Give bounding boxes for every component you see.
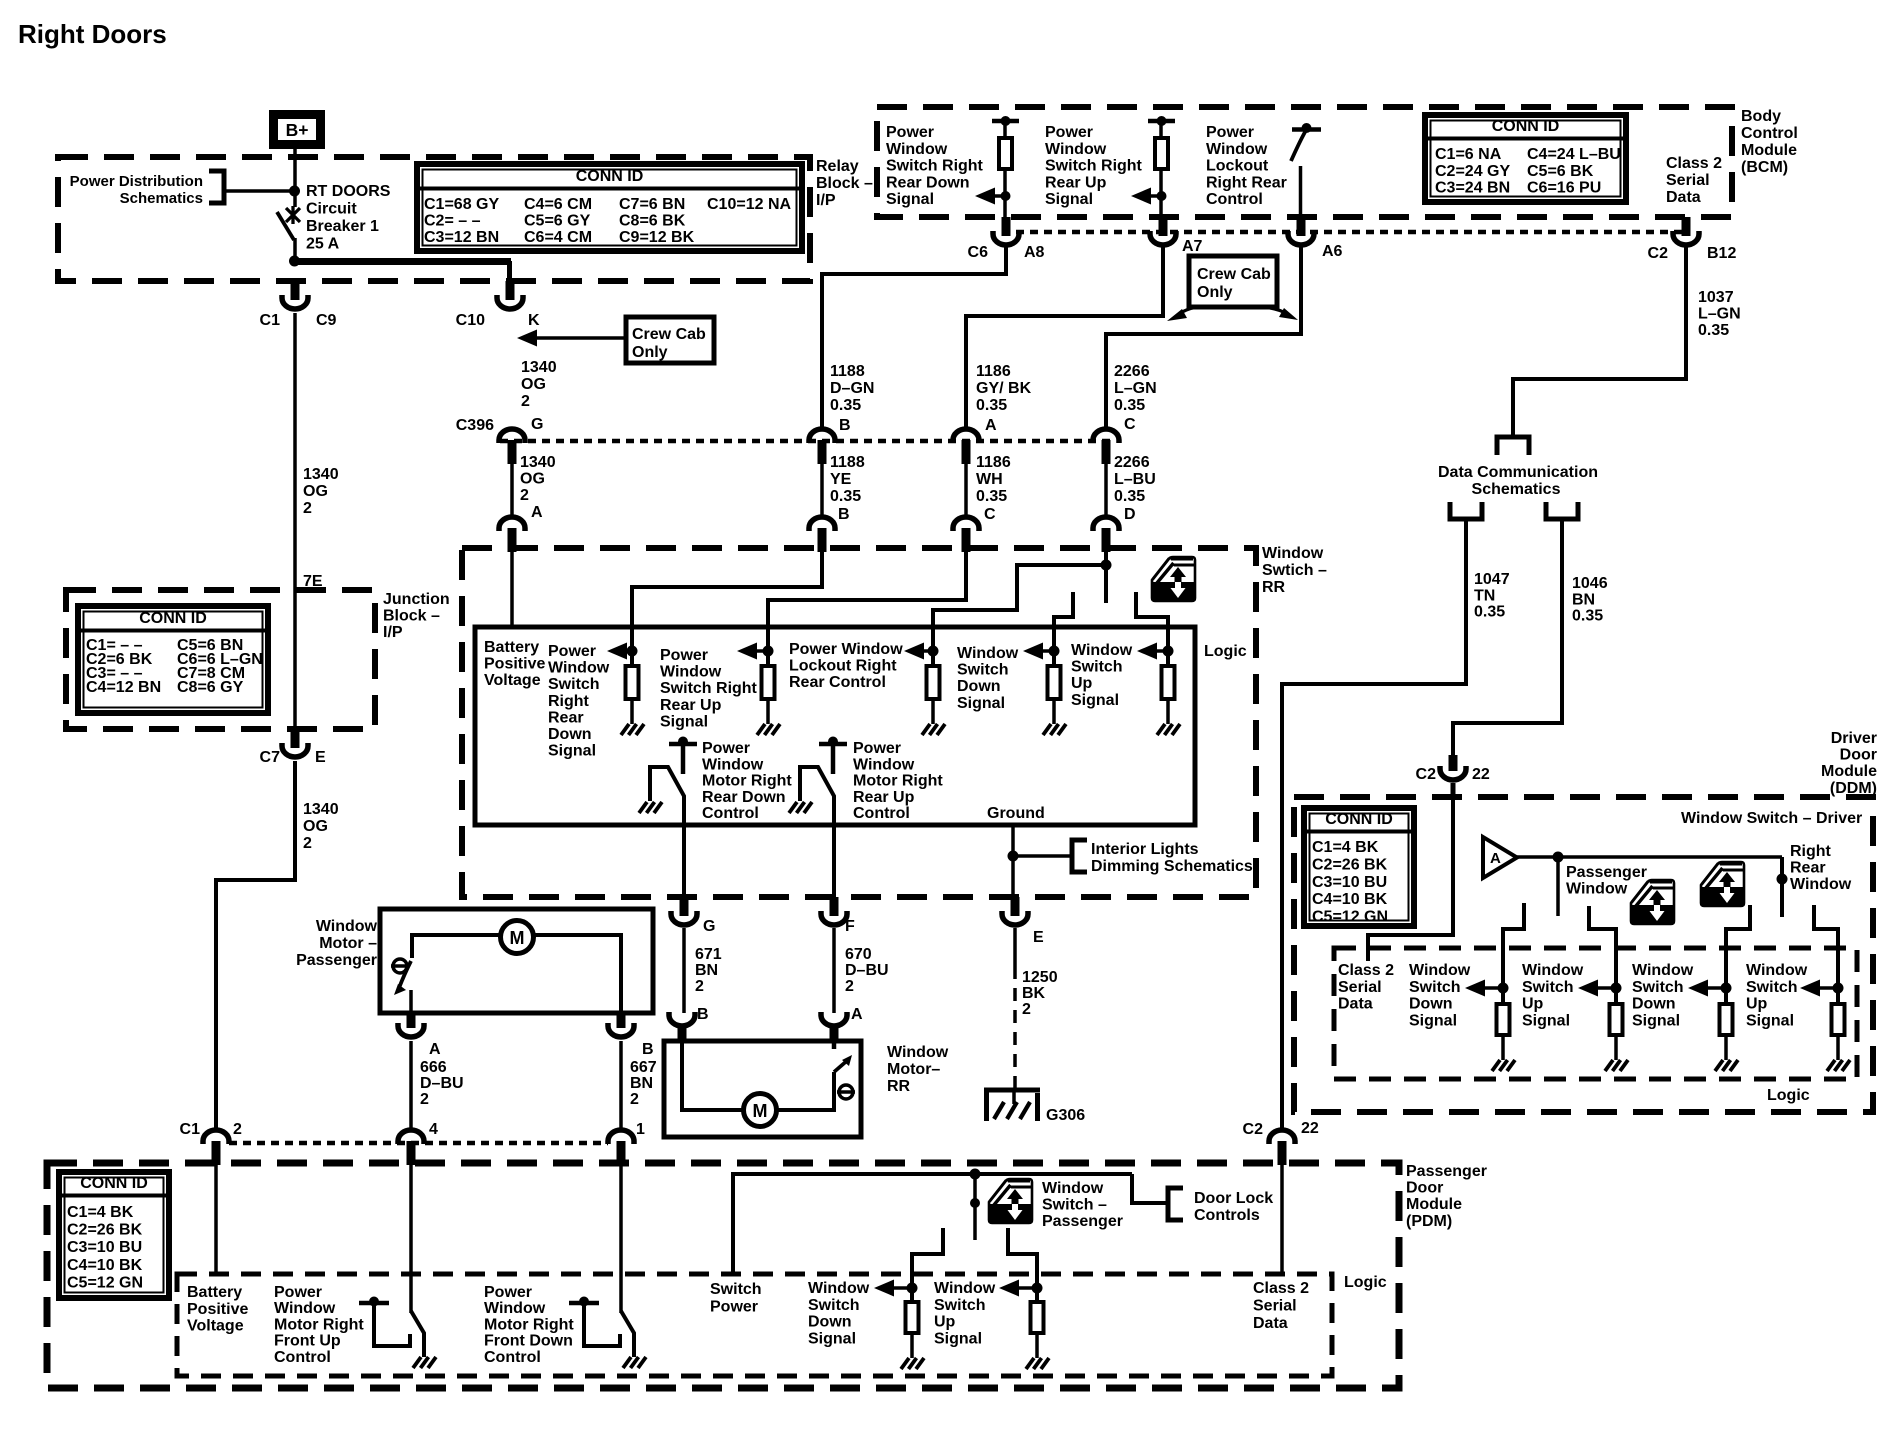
label power window switch right rear up signal (RR) (660, 647, 758, 730)
svg-text:Schematics: Schematics (120, 190, 203, 207)
connector A (motor passenger) (398, 1013, 424, 1037)
pin label B12 (1707, 245, 1736, 262)
svg-text:Signal: Signal (1071, 692, 1119, 709)
wire window switch up signal stub (1136, 592, 1168, 666)
pin label G (RR out) (703, 918, 715, 935)
svg-text:D–BU: D–BU (420, 1075, 464, 1092)
node right rear window tap (1777, 874, 1788, 885)
label window switch up signal (PDM) (934, 1280, 996, 1347)
svg-text:Switch Right: Switch Right (886, 158, 984, 175)
title Right Doors (18, 19, 167, 49)
label 1047 TN 0.35 (1474, 571, 1510, 621)
ground driver col2 (1605, 1060, 1628, 1071)
wire 1047 TN (1282, 519, 1466, 1131)
svg-text:Passenger: Passenger (1042, 1213, 1123, 1230)
node junction driver col3 (1721, 983, 1732, 994)
wire driver col4 contact (1814, 905, 1838, 1004)
pin label B (motor RR) (697, 1006, 709, 1023)
resistor col3 RR (927, 666, 940, 724)
svg-text:0.35: 0.35 (1698, 322, 1729, 339)
svg-text:Battery: Battery (484, 639, 539, 656)
svg-text:L–GN: L–GN (1698, 306, 1741, 323)
pin label 7E (303, 573, 323, 590)
node junction passenger up (1032, 1283, 1043, 1294)
resistor col2 RR (762, 666, 775, 724)
svg-text:Lockout: Lockout (1206, 158, 1269, 175)
svg-text:Module: Module (1821, 763, 1877, 780)
label Passenger Window (1566, 864, 1647, 898)
connector C2/22 (DDM) (1440, 755, 1466, 780)
resistor col1 RR (626, 666, 639, 724)
wire switch power (733, 1174, 1132, 1274)
label 1340 OG 2 below row (520, 454, 556, 504)
svg-text:RR: RR (887, 1078, 911, 1095)
pin label C1 (PDM) (180, 1121, 201, 1138)
svg-text:Window: Window (1522, 962, 1584, 979)
svg-text:Signal: Signal (957, 695, 1005, 712)
wire 1188 D-GN (A8 to B) (822, 246, 1006, 430)
label power window switch right rear up signal (1045, 124, 1143, 208)
svg-text:C1=68 GY: C1=68 GY (424, 196, 499, 213)
svg-text:1188: 1188 (830, 363, 865, 380)
svg-text:Data: Data (1338, 996, 1373, 1013)
svg-text:Window Switch – Driver: Window Switch – Driver (1681, 810, 1862, 827)
label Window Switch - Passenger (1042, 1180, 1123, 1230)
node junction col4 (1049, 646, 1060, 657)
svg-text:Up: Up (1746, 996, 1768, 1013)
callout Crew Cab Only (left) (517, 317, 714, 363)
connector F (821, 897, 847, 925)
svg-text:C8=6 GY: C8=6 GY (177, 679, 244, 696)
label power window switch right rear down signal (RR) (548, 643, 610, 760)
label Relay Block - I/P (816, 158, 873, 209)
svg-text:C10=12 NA: C10=12 NA (707, 196, 791, 213)
svg-text:Window: Window (808, 1280, 870, 1297)
svg-text:Passenger: Passenger (296, 952, 377, 969)
wire 1186 WH segment (964, 456, 968, 517)
svg-text:Positive: Positive (187, 1301, 248, 1318)
connector C2/22 (PDM) (1269, 1130, 1295, 1165)
wire 667 BN lower (619, 1041, 623, 1131)
svg-text:22: 22 (1301, 1120, 1319, 1137)
wire passenger window pole (1556, 857, 1560, 916)
svg-text:M: M (753, 1101, 768, 1121)
svg-text:Switch: Switch (1071, 659, 1123, 676)
label Window Motor - Passenger (296, 918, 377, 969)
ground G306 (984, 1090, 1040, 1121)
label power window motor right rear down control (702, 740, 792, 822)
svg-text:C3=10 BU: C3=10 BU (67, 1239, 142, 1256)
svg-text:2: 2 (695, 978, 704, 995)
component box Window Motor Passenger (380, 909, 653, 1013)
svg-text:L–BU: L–BU (1114, 471, 1156, 488)
ground col3 RR (922, 724, 945, 735)
pin label 22 (DDM) (1472, 766, 1490, 783)
wire motor right front down control (619, 1162, 623, 1313)
label window switch down signal (PDM) (808, 1280, 870, 1347)
svg-text:Rear Up: Rear Up (853, 789, 915, 806)
svg-text:671: 671 (695, 946, 722, 963)
svg-text:Serial: Serial (1338, 979, 1382, 996)
svg-text:OG: OG (303, 483, 328, 500)
node junction col3 (928, 646, 939, 657)
svg-text:GY/ BK: GY/ BK (976, 380, 1032, 397)
svg-text:A6: A6 (1322, 243, 1343, 260)
svg-text:Window: Window (548, 660, 610, 677)
svg-text:M: M (510, 928, 525, 948)
svg-text:Rear Control: Rear Control (789, 674, 886, 691)
ground driver col4 (1827, 1060, 1850, 1071)
label Body Control Module (BCM) (1741, 108, 1798, 176)
wire motor passenger loop (412, 935, 621, 1013)
label window switch up signal (D4) (1746, 962, 1808, 1029)
table CONN ID BCM (1425, 115, 1626, 202)
svg-text:Block –: Block – (383, 608, 440, 625)
svg-text:2: 2 (233, 1121, 242, 1138)
wire 1037 L-GN (B12 to data comm) (1513, 246, 1686, 437)
resistor col4 RR (1048, 666, 1061, 724)
svg-text:Module: Module (1741, 142, 1797, 159)
svg-text:B: B (697, 1006, 709, 1023)
node junction passenger down (907, 1283, 918, 1294)
connector B (motor RR) (669, 1012, 695, 1039)
resistor driver col3 (1720, 1004, 1733, 1060)
pin label C7 (260, 749, 281, 766)
svg-text:OG: OG (521, 376, 546, 393)
label Window Swtich - RR (1262, 545, 1327, 596)
svg-text:CONN ID: CONN ID (576, 168, 644, 185)
component box Window Motor RR (664, 1041, 861, 1137)
offpage connector (class 2 to data comm) (1497, 437, 1529, 455)
svg-text:A: A (429, 1041, 441, 1058)
signal arrow down signal (RR) (1023, 643, 1054, 660)
svg-text:Power: Power (484, 1284, 532, 1301)
connector RR pin B (809, 517, 835, 552)
svg-text:C2: C2 (1416, 766, 1437, 783)
svg-text:Data Communication: Data Communication (1438, 464, 1598, 481)
label window switch up signal (RR) (1071, 642, 1133, 709)
label Logic (PDM) (1344, 1274, 1387, 1291)
wire 1046 BN (1453, 519, 1562, 757)
svg-text:Logic: Logic (1204, 643, 1247, 660)
ground col5 RR (1157, 724, 1180, 735)
callout Crew Cab Only (right) (1167, 256, 1298, 321)
svg-text:Crew Cab: Crew Cab (632, 326, 706, 343)
wire feed bus (294, 261, 511, 283)
label Data Communication Schematics (1438, 464, 1598, 498)
svg-text:Down: Down (548, 726, 592, 743)
connector G (671, 897, 697, 925)
svg-text:BK: BK (1022, 985, 1046, 1002)
resistor driver col2 (1610, 1004, 1623, 1060)
node junction driver col2 (1611, 983, 1622, 994)
pin label A (985, 417, 997, 434)
wire 1186 GY/BK (A7 to A) (966, 246, 1163, 430)
svg-text:C5=6 GY: C5=6 GY (524, 213, 591, 230)
svg-text:Window: Window (1262, 545, 1324, 562)
label 2266 L-GN 0.35 (1114, 363, 1157, 414)
svg-text:Up: Up (1522, 996, 1544, 1013)
label Junction Block - I/P (383, 591, 450, 641)
svg-text:Circuit: Circuit (306, 201, 357, 218)
net dotted connector row PDM (229, 1141, 608, 1146)
connector A (motor RR) (821, 1012, 847, 1039)
pin label D (RR) (1124, 506, 1136, 523)
ground driver col3 (1715, 1060, 1738, 1071)
pin label B (RR) (838, 506, 850, 523)
label 1186 GY/BK 0.35 (976, 363, 1032, 414)
connector RR pin A (499, 517, 525, 552)
svg-text:C: C (984, 506, 996, 523)
svg-text:Rear: Rear (1790, 860, 1826, 877)
label Door Lock Controls (1194, 1190, 1273, 1224)
node junction col2 (763, 646, 774, 657)
svg-text:2: 2 (303, 835, 312, 852)
wire 1188 YE segment (820, 456, 824, 517)
svg-text:(BCM): (BCM) (1741, 159, 1788, 176)
wire 1340 OG segment (510, 456, 514, 517)
signal arrow rear up (1131, 188, 1167, 205)
svg-text:Power: Power (702, 740, 750, 757)
pin label C1 (260, 312, 281, 329)
wire B+ to breaker (293, 149, 297, 191)
svg-text:0.35: 0.35 (976, 397, 1007, 414)
pin label A8 (1024, 244, 1045, 261)
pin label 22 (PDM) (1301, 1120, 1319, 1137)
label 1340 OG 2 lower (303, 801, 339, 852)
svg-text:D–BU: D–BU (845, 962, 889, 979)
wire lockout control into logic (933, 548, 1112, 666)
svg-text:Window: Window (660, 664, 722, 681)
svg-text:2: 2 (420, 1091, 429, 1108)
svg-text:Right Rear: Right Rear (1206, 174, 1287, 191)
wire rear down signal into logic (632, 548, 822, 666)
svg-text:Body: Body (1741, 108, 1781, 125)
wire 1340 OG (C9 to junction block) (293, 313, 297, 590)
svg-text:C4=24 L–BU: C4=24 L–BU (1527, 146, 1621, 163)
module Junction Block - I/P (66, 590, 375, 729)
svg-text:Signal: Signal (1409, 1012, 1457, 1029)
svg-text:Passenger: Passenger (1406, 1163, 1487, 1180)
svg-text:A7: A7 (1182, 238, 1203, 255)
label 2266 L-BU 0.35 (1114, 454, 1156, 505)
svg-text:1340: 1340 (303, 801, 339, 818)
svg-text:Power: Power (548, 643, 596, 660)
logic block RR switch (475, 627, 1195, 825)
svg-text:Motor –: Motor – (319, 935, 377, 952)
pin label C9 (316, 312, 337, 329)
connector C6/A8 (993, 217, 1019, 245)
svg-text:Door: Door (1406, 1180, 1443, 1197)
svg-text:C4=6 CM: C4=6 CM (524, 196, 592, 213)
svg-text:I/P: I/P (816, 192, 836, 209)
svg-text:TN: TN (1474, 587, 1495, 604)
pin label F (RR out) (845, 918, 855, 935)
svg-text:Breaker 1: Breaker 1 (306, 218, 379, 235)
svg-text:A: A (851, 1006, 863, 1023)
svg-text:Window: Window (957, 645, 1019, 662)
module Relay Block - I/P (58, 157, 810, 281)
svg-text:Down: Down (1632, 996, 1676, 1013)
svg-text:C5=12 GN: C5=12 GN (67, 1274, 143, 1291)
svg-text:Control: Control (1741, 125, 1798, 142)
wire passenger up contact (1008, 1228, 1037, 1302)
svg-text:Switch: Switch (934, 1297, 986, 1314)
svg-text:Window: Window (1746, 962, 1808, 979)
resistor driver col1 (1497, 1004, 1510, 1060)
wire rear up signal into logic (768, 548, 966, 666)
svg-text:Serial: Serial (1666, 172, 1710, 189)
svg-text:C1=4 BK: C1=4 BK (1312, 839, 1379, 856)
svg-text:C2: C2 (1243, 1121, 1264, 1138)
svg-text:2: 2 (1022, 1001, 1031, 1018)
wire class 2 serial data (PDM) (1280, 1157, 1284, 1274)
signal arrow passenger up (999, 1280, 1037, 1297)
label 1188 D-GN 0.35 (830, 363, 874, 414)
svg-text:Data: Data (1666, 189, 1701, 206)
wire C2/22 into DDM (1451, 783, 1456, 797)
svg-text:667: 667 (630, 1059, 657, 1076)
svg-text:1047: 1047 (1474, 571, 1510, 588)
pin label C2 (1648, 245, 1669, 262)
svg-text:C3=12 BN: C3=12 BN (424, 229, 499, 246)
svg-text:Switch: Switch (808, 1297, 860, 1314)
label 1046 BN 0.35 (1572, 575, 1608, 625)
svg-text:Ground: Ground (987, 805, 1045, 822)
svg-text:0.35: 0.35 (976, 488, 1007, 505)
offpage connector 1047 (1450, 502, 1482, 519)
svg-text:Switch –: Switch – (1042, 1197, 1107, 1214)
pin label C6 (968, 244, 989, 261)
svg-text:0.35: 0.35 (1114, 488, 1145, 505)
signal arrow driver col3 (1688, 980, 1726, 997)
svg-text:C10: C10 (456, 312, 485, 329)
label Battery Positive Voltage (484, 639, 545, 689)
svg-text:0.35: 0.35 (1572, 608, 1603, 625)
pin label B (839, 417, 851, 434)
node junction at bus (289, 256, 300, 267)
svg-text:C396: C396 (456, 417, 494, 434)
wire driver col1 contact (1503, 903, 1524, 1004)
label 1340 OG 2 above row (521, 359, 557, 410)
net dotted connector row BCM (1002, 230, 1690, 235)
label 1186 WH 0.35 (976, 454, 1011, 505)
wire window switch down signal stub (1054, 592, 1073, 666)
signal arrow driver col2 (1578, 980, 1616, 997)
svg-text:Data: Data (1253, 1315, 1288, 1332)
label 1037 L-GN 0.35 (1698, 289, 1741, 339)
label RT DOORS Circuit Breaker 1 25 A (306, 183, 391, 253)
pin label C2 (PDM) (1243, 1121, 1264, 1138)
svg-text:Window: Window (887, 1044, 949, 1061)
switch power window motor right rear down control (639, 737, 697, 898)
pin label 1 (PDM) (636, 1121, 645, 1138)
svg-text:Signal: Signal (660, 713, 708, 730)
svg-text:Positive: Positive (484, 656, 545, 673)
pin label C2 (DDM) (1416, 766, 1437, 783)
label Logic (DDM) (1767, 1087, 1810, 1104)
svg-text:Voltage: Voltage (187, 1318, 244, 1335)
svg-text:25 A: 25 A (306, 236, 340, 253)
svg-text:Signal: Signal (1045, 191, 1093, 208)
label window switch down signal (D1) (1409, 962, 1471, 1029)
svg-text:Switch: Switch (1409, 979, 1461, 996)
svg-text:C5=6 BK: C5=6 BK (1527, 163, 1594, 180)
signal arrow lockout (RR) (904, 643, 933, 660)
svg-text:C5=12 GN: C5=12 GN (1312, 909, 1388, 926)
signal arrow driver col1 (1465, 980, 1503, 997)
pin label A7 (1182, 238, 1203, 255)
wire class 2 serial data (DDM) (1368, 797, 1453, 961)
svg-text:Up: Up (934, 1314, 956, 1331)
svg-text:Motor Right: Motor Right (274, 1316, 364, 1333)
svg-text:Driver: Driver (1831, 730, 1877, 747)
node junction col5 (1163, 646, 1174, 657)
connector C396 pin B (809, 429, 835, 464)
svg-text:Switch: Switch (710, 1281, 762, 1298)
signal arrow up signal (RR) (1137, 643, 1168, 660)
svg-text:Signal: Signal (1522, 1012, 1570, 1029)
svg-text:L–GN: L–GN (1114, 380, 1157, 397)
svg-text:Dimming Schematics: Dimming Schematics (1091, 858, 1253, 875)
wire to interior lights (1013, 854, 1070, 858)
svg-text:BN: BN (630, 1075, 653, 1092)
switch thermal motor passenger (391, 959, 411, 1013)
wire driver col3 contact (1726, 905, 1750, 1004)
label window switch up signal (D2) (1522, 962, 1584, 1029)
logic block PDM (177, 1274, 1332, 1376)
connector A7 (1150, 217, 1176, 245)
wire power distribution to breaker (226, 189, 295, 193)
svg-text:Power Distribution: Power Distribution (70, 173, 203, 190)
svg-text:Down: Down (1409, 996, 1453, 1013)
wire to door lock controls (1132, 1174, 1166, 1203)
pin label C10 (456, 312, 485, 329)
connector B (motor passenger) (608, 1013, 634, 1037)
svg-text:1037: 1037 (1698, 289, 1734, 306)
svg-text:D: D (1124, 506, 1136, 523)
label Driver Door Module (DDM) (1821, 730, 1877, 797)
pin label A (motor RR) (851, 1006, 863, 1023)
svg-text:C1=4 BK: C1=4 BK (67, 1204, 134, 1221)
svg-text:Window: Window (1045, 141, 1107, 158)
svg-text:2266: 2266 (1114, 454, 1150, 471)
table CONN ID junction block (78, 606, 268, 713)
connector C396 pin A (953, 429, 979, 464)
svg-text:Signal: Signal (808, 1330, 856, 1347)
svg-text:Right Doors: Right Doors (18, 19, 167, 49)
wire 1250 BK (1014, 928, 1015, 1104)
svg-text:Battery: Battery (187, 1284, 242, 1301)
svg-text:Down: Down (808, 1314, 852, 1331)
svg-text:Only: Only (1197, 284, 1233, 301)
svg-text:Lockout Right: Lockout Right (789, 658, 897, 675)
svg-text:D–GN: D–GN (830, 380, 874, 397)
label power window motor right front up control (274, 1284, 364, 1366)
svg-text:Rear: Rear (548, 709, 584, 726)
svg-text:2: 2 (845, 978, 854, 995)
svg-text:Schematics: Schematics (1472, 481, 1561, 498)
label window switch down signal (D3) (1632, 962, 1694, 1029)
svg-text:Module: Module (1406, 1196, 1462, 1213)
svg-text:2: 2 (303, 500, 312, 517)
svg-text:A: A (985, 417, 997, 434)
svg-text:Switch: Switch (1746, 979, 1798, 996)
svg-text:Power: Power (710, 1299, 758, 1316)
svg-text:Signal: Signal (1746, 1012, 1794, 1029)
svg-text:Control: Control (1206, 191, 1263, 208)
svg-text:0.35: 0.35 (1474, 604, 1505, 621)
